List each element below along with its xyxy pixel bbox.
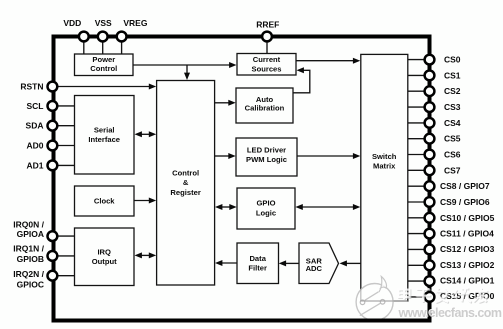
chip outline	[54, 37, 430, 321]
wire IRQ1N to IRQ Output	[56, 255, 75, 257]
pin CS12	[425, 245, 435, 255]
block Switch Matrix	[361, 54, 408, 301]
svg-text:Filter: Filter	[248, 264, 267, 273]
wire Switch Matrix to CS2	[408, 90, 426, 92]
wire Switch Matrix to CS13	[408, 264, 426, 266]
wire RREF to Current Sources	[266, 41, 268, 54]
wire Switch Matrix to CS10	[408, 217, 426, 219]
svg-text:Control: Control	[172, 168, 199, 177]
wire GPIO Logic to Switch Matrix	[301, 206, 355, 208]
wire VREG to Power Control	[121, 41, 123, 54]
pin IRQ2N GPIOC	[48, 271, 58, 281]
block Auto Calibration	[236, 88, 293, 123]
block SAR ADC	[299, 243, 339, 284]
pin CS9	[425, 197, 435, 207]
watermark url text	[397, 305, 502, 320]
pin AD1	[48, 161, 58, 171]
wire Switch Matrix to CS6	[408, 154, 426, 156]
wire Control Register to LED Driver	[215, 155, 230, 157]
pin IRQ1N GPIOB	[48, 251, 58, 261]
wire Switch Matrix to CS3	[408, 106, 426, 108]
wire Switch Matrix to CS1	[408, 74, 426, 76]
svg-text:VDD: VDD	[63, 18, 81, 28]
pin CS4	[425, 118, 435, 128]
pin RREF	[262, 32, 272, 42]
svg-text:Current: Current	[253, 55, 281, 64]
svg-text:IRQ1N /: IRQ1N /	[13, 244, 44, 254]
svg-text:Data: Data	[249, 254, 266, 263]
pin CS14	[425, 276, 435, 286]
block IRQ Output	[75, 228, 135, 286]
svg-text:IRQ: IRQ	[97, 247, 111, 256]
svg-text:GPIOB: GPIOB	[17, 254, 44, 264]
arrowhead into SAR ADC	[340, 260, 347, 266]
arrowhead RSTN into Control Register	[149, 84, 156, 90]
svg-text:CS12 / GPIO3: CS12 / GPIO3	[440, 244, 495, 254]
pin VSS	[98, 32, 108, 42]
svg-text:Calibration: Calibration	[245, 104, 285, 113]
arrowhead IRQ-Control left	[135, 252, 142, 258]
pin CS11	[425, 229, 435, 239]
wire Control Register to Auto Calibration	[215, 102, 230, 104]
svg-text:www.elecfans.com: www.elecfans.com	[398, 306, 503, 320]
pin CS6	[425, 150, 435, 160]
wire LED Driver to Switch Matrix	[297, 155, 355, 157]
bottom chip border redrawn over watermark	[352, 319, 431, 323]
svg-text:ADC: ADC	[306, 264, 323, 273]
wire Auto Calibration feedback to Current Sources	[293, 70, 310, 93]
wire AD1 to Serial Interface	[56, 164, 75, 166]
pin CS1	[425, 71, 435, 81]
wire branch down to Control Register top	[186, 65, 188, 75]
wire SDA to Serial Interface	[56, 125, 75, 127]
pin RSTN	[48, 82, 58, 92]
pin CS10	[425, 213, 435, 223]
pin CS2	[425, 86, 435, 96]
svg-text:AD0: AD0	[26, 141, 43, 151]
svg-text:GPIO: GPIO	[257, 199, 276, 208]
pin CS13	[425, 260, 435, 270]
wire RSTN to Control Register	[56, 86, 151, 88]
wire IRQ0N to IRQ Output	[56, 235, 75, 237]
svg-text:Matrix: Matrix	[373, 162, 396, 171]
wire Data Filter to Control Register	[221, 262, 238, 264]
arrowhead into Current Sources	[229, 62, 236, 68]
svg-text:AD1: AD1	[26, 160, 43, 170]
wire SAR ADC to Data Filter	[285, 262, 300, 264]
svg-text:Output: Output	[92, 257, 117, 266]
svg-text:Register: Register	[170, 188, 200, 197]
svg-text:PWM Logic: PWM Logic	[246, 155, 287, 164]
svg-text:CS3: CS3	[444, 102, 461, 112]
arrowhead Serial-Control left	[135, 131, 142, 137]
svg-text:Serial: Serial	[94, 126, 115, 135]
svg-text:Clock: Clock	[94, 197, 115, 206]
arrowhead GPIO-Switch right	[353, 204, 360, 210]
wire Switch Matrix to CS15	[408, 296, 426, 298]
wire AD0 to Serial Interface	[56, 145, 75, 147]
wire VDD to Power Control	[83, 41, 85, 54]
wire Switch Matrix to CS4	[408, 122, 426, 124]
svg-text:Control: Control	[90, 64, 117, 73]
wire SCL to Serial Interface	[56, 105, 75, 107]
pin SCL	[48, 101, 58, 111]
wire Switch Matrix to CS14	[408, 280, 426, 282]
pin IRQ0N GPIOA	[48, 231, 58, 241]
svg-text:CS7: CS7	[444, 165, 461, 175]
arrowhead into LED Driver	[228, 153, 235, 159]
arrowhead Control-GPIO right	[229, 204, 236, 210]
block Serial Interface	[75, 96, 135, 175]
svg-text:Power: Power	[92, 55, 115, 64]
arrowhead into Auto Calibration	[228, 100, 235, 106]
pin CS7	[425, 165, 435, 175]
pin CS15	[425, 292, 435, 302]
svg-text:Interface: Interface	[88, 135, 120, 144]
svg-text:GPIOA: GPIOA	[17, 229, 44, 239]
wire Switch Matrix to CS0	[408, 59, 426, 61]
svg-text:&: &	[183, 178, 189, 187]
pin CS8	[425, 181, 435, 191]
wire Switch Matrix to CS12	[408, 248, 426, 250]
svg-text:CS4: CS4	[444, 118, 461, 128]
wire Power Control to Current Sources	[133, 64, 231, 66]
svg-text:CS5: CS5	[444, 134, 461, 144]
block Current Sources	[237, 54, 296, 76]
wire Switch Matrix to CS11	[408, 233, 426, 235]
arrowhead Serial-Control right	[149, 131, 156, 137]
block Power Control	[75, 54, 134, 76]
arrowhead into Control Register top	[184, 73, 190, 80]
wire Switch Matrix to SAR ADC	[346, 262, 361, 264]
wire Serial Interface to Control Register	[140, 133, 151, 135]
svg-text:Logic: Logic	[256, 208, 276, 217]
wire IRQ2N to IRQ Output	[56, 275, 75, 277]
block Control and Register	[157, 81, 215, 286]
arrowhead IRQ-Control right	[149, 252, 156, 258]
svg-text:Auto: Auto	[256, 95, 274, 104]
svg-text:CS0: CS0	[444, 55, 461, 65]
svg-text:VSS: VSS	[95, 18, 112, 28]
watermark logo swirl	[356, 277, 408, 321]
arrowhead Clock into Control Register	[149, 198, 156, 204]
arrowhead LED into Switch Matrix	[353, 153, 360, 159]
svg-text:LED Driver: LED Driver	[247, 146, 286, 155]
svg-text:RREF: RREF	[256, 20, 279, 30]
svg-text:SCL: SCL	[27, 101, 44, 111]
switch matrix bottom edge showing through watermark	[361, 300, 408, 302]
block LED Driver PWM Logic	[236, 138, 297, 176]
svg-text:CS6: CS6	[444, 150, 461, 160]
svg-text:CS1: CS1	[444, 70, 461, 80]
svg-text:Sources: Sources	[252, 65, 282, 74]
arrowhead feedback into Current Sources	[297, 67, 304, 73]
svg-text:GPIOC: GPIOC	[17, 280, 44, 290]
wire VSS to Power Control	[102, 41, 104, 54]
arrowhead into Data Filter	[279, 260, 286, 266]
svg-text:CS8 / GPIO7: CS8 / GPIO7	[440, 181, 490, 191]
block Clock	[75, 186, 135, 216]
svg-text:CS14 / GPIO1: CS14 / GPIO1	[440, 276, 495, 286]
arrowhead Data Filter into Control Register	[215, 260, 222, 266]
svg-text:CS9 / GPIO6: CS9 / GPIO6	[440, 197, 490, 207]
wire Clock to Control Register	[134, 200, 151, 202]
arrowhead GPIO-Switch left	[295, 204, 302, 210]
svg-text:RSTN: RSTN	[20, 81, 43, 91]
wire Switch Matrix to CS5	[408, 138, 426, 140]
block Data Filter	[237, 243, 279, 284]
svg-text:SDA: SDA	[26, 121, 44, 131]
wire Switch Matrix to CS9	[408, 201, 426, 203]
pin VDD	[79, 32, 89, 42]
pin AD0	[48, 141, 58, 151]
wire IRQ Output to Control Register	[140, 254, 151, 256]
arrowhead Control-GPIO left	[215, 204, 222, 210]
wire Control Register to GPIO Logic	[221, 206, 232, 208]
svg-text:Switch: Switch	[372, 152, 397, 161]
pin CS0	[425, 55, 435, 65]
wire Switch Matrix to CS8	[408, 185, 426, 187]
svg-text:IRQ0N /: IRQ0N /	[13, 219, 44, 229]
watermark chinese text	[399, 288, 489, 304]
arrowhead Current Sources to Switch Matrix	[353, 58, 360, 64]
svg-text:CS13 / GPIO2: CS13 / GPIO2	[440, 260, 495, 270]
pin CS3	[425, 102, 435, 112]
svg-text:CS11 / GPIO4: CS11 / GPIO4	[440, 229, 494, 239]
block GPIO Logic	[237, 188, 295, 229]
svg-text:IRQ2N /: IRQ2N /	[13, 269, 44, 279]
pin VREG	[117, 32, 127, 42]
svg-text:CS10 / GPIO5: CS10 / GPIO5	[440, 213, 495, 223]
svg-text:VREG: VREG	[123, 18, 147, 28]
svg-text:CS2: CS2	[444, 86, 461, 96]
pin CS5	[425, 134, 435, 144]
pin SDA	[48, 121, 58, 131]
wire Switch Matrix to CS7	[408, 169, 426, 171]
wire Current Sources to Switch Matrix	[296, 60, 355, 62]
